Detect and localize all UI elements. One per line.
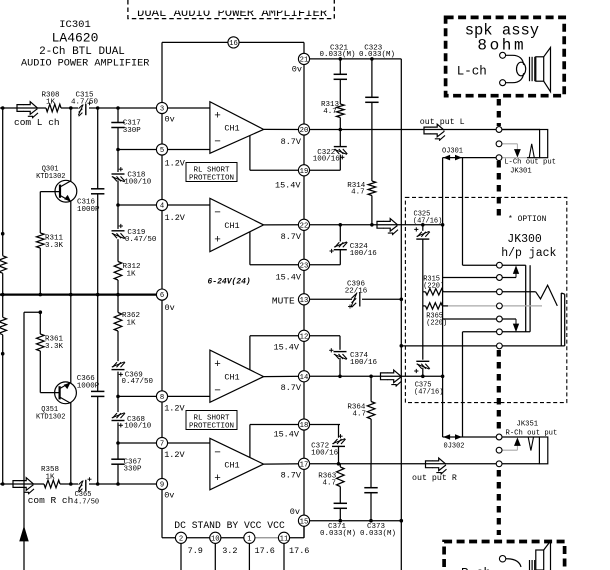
svg-text:1: 1 xyxy=(247,535,251,543)
svg-text:0.033(M): 0.033(M) xyxy=(320,530,356,538)
svg-text:KTD1302: KTD1302 xyxy=(36,414,65,422)
svg-text:h/p jack: h/p jack xyxy=(501,247,556,260)
svg-text:19: 19 xyxy=(300,168,309,176)
svg-text:JK301: JK301 xyxy=(510,168,532,176)
svg-text:RL SHORT: RL SHORT xyxy=(193,167,230,175)
svg-text:+: + xyxy=(214,359,221,371)
svg-text:2: 2 xyxy=(179,535,183,543)
svg-text:1.2V: 1.2V xyxy=(164,404,185,414)
svg-text:22/16: 22/16 xyxy=(345,288,368,296)
svg-text:8.7V: 8.7V xyxy=(281,232,302,242)
svg-text:JK351: JK351 xyxy=(517,420,539,428)
svg-text:12: 12 xyxy=(300,333,309,341)
svg-text:16: 16 xyxy=(229,40,238,48)
svg-text:com L ch: com L ch xyxy=(14,117,60,128)
svg-text:R-Ch out put: R-Ch out put xyxy=(506,429,558,437)
svg-text:1K: 1K xyxy=(45,474,55,482)
svg-text:14: 14 xyxy=(300,374,309,382)
svg-text:1.2V: 1.2V xyxy=(165,213,186,223)
svg-text:CH1: CH1 xyxy=(224,221,239,231)
svg-text:8.7V: 8.7V xyxy=(281,383,302,393)
svg-text:+: + xyxy=(214,473,221,485)
svg-text:10: 10 xyxy=(211,535,220,543)
svg-text:PROTECTION: PROTECTION xyxy=(189,175,234,183)
svg-text:1000P: 1000P xyxy=(77,383,100,391)
svg-text:0.033(M): 0.033(M) xyxy=(319,51,355,59)
svg-text:11: 11 xyxy=(280,535,289,543)
svg-text:17.6: 17.6 xyxy=(255,546,275,556)
svg-text:3: 3 xyxy=(160,106,164,114)
svg-text:100/16: 100/16 xyxy=(313,155,341,163)
svg-text:330P: 330P xyxy=(124,466,143,474)
svg-text:0v: 0v xyxy=(290,507,300,517)
svg-text:CH1: CH1 xyxy=(224,372,239,382)
svg-text:out put R: out put R xyxy=(412,474,457,483)
svg-text:com R ch: com R ch xyxy=(28,495,74,506)
svg-text:1.2V: 1.2V xyxy=(165,159,186,169)
svg-text:L-Ch out put: L-Ch out put xyxy=(504,159,556,167)
svg-text:+: + xyxy=(214,235,221,247)
svg-text:PROTECTION: PROTECTION xyxy=(189,423,234,431)
svg-text:L-ch: L-ch xyxy=(457,65,487,79)
svg-text:4.7: 4.7 xyxy=(351,188,365,196)
svg-text:JK300: JK300 xyxy=(507,233,542,246)
svg-text:21: 21 xyxy=(300,57,309,65)
svg-text:17: 17 xyxy=(300,461,309,469)
svg-text:−: − xyxy=(214,207,221,219)
svg-text:1K: 1K xyxy=(127,320,137,328)
svg-text:15.4V: 15.4V xyxy=(275,273,301,283)
svg-text:4.7/50: 4.7/50 xyxy=(71,98,99,106)
svg-text:−: − xyxy=(214,447,221,459)
svg-text:0.033(M): 0.033(M) xyxy=(360,530,396,538)
svg-text:DC STAND BY VCC VCC: DC STAND BY VCC VCC xyxy=(174,520,285,531)
svg-text:100/16: 100/16 xyxy=(350,250,378,258)
svg-text:AUDIO POWER AMPLIFIER: AUDIO POWER AMPLIFIER xyxy=(21,59,149,70)
svg-text:8.7V: 8.7V xyxy=(281,137,302,147)
svg-text:6-24V(24): 6-24V(24) xyxy=(208,278,251,287)
svg-text:15.4V: 15.4V xyxy=(273,430,299,440)
svg-text:17.6: 17.6 xyxy=(289,546,309,556)
svg-text:15.4V: 15.4V xyxy=(273,343,299,353)
svg-text:out put L: out put L xyxy=(420,118,465,127)
svg-text:MUTE: MUTE xyxy=(272,296,295,307)
svg-text:IC301: IC301 xyxy=(59,19,91,31)
svg-text:R-ch: R-ch xyxy=(461,567,491,570)
svg-text:3.3K: 3.3K xyxy=(45,343,64,351)
svg-text:0v: 0v xyxy=(165,115,175,125)
svg-text:(220): (220) xyxy=(423,283,444,291)
svg-text:3.2: 3.2 xyxy=(222,546,237,556)
svg-text:0.033(M): 0.033(M) xyxy=(359,51,395,59)
svg-text:15.4V: 15.4V xyxy=(275,181,301,191)
svg-text:1K: 1K xyxy=(46,98,56,106)
svg-text:3.3K: 3.3K xyxy=(45,242,64,250)
svg-text:330P: 330P xyxy=(123,127,142,135)
svg-text:15: 15 xyxy=(300,518,309,526)
svg-text:9: 9 xyxy=(160,482,164,490)
svg-text:0J302: 0J302 xyxy=(444,443,465,451)
svg-text:0v: 0v xyxy=(165,303,175,313)
svg-text:RL SHORT: RL SHORT xyxy=(193,415,230,423)
svg-text:0v: 0v xyxy=(292,65,302,75)
svg-text:20: 20 xyxy=(300,127,309,135)
svg-text:CH1: CH1 xyxy=(224,124,239,134)
svg-text:LA4620: LA4620 xyxy=(52,31,99,46)
svg-text:8ohm: 8ohm xyxy=(477,37,526,55)
svg-text:13: 13 xyxy=(300,297,309,305)
svg-text:1K: 1K xyxy=(127,271,137,279)
svg-text:+: + xyxy=(214,111,221,123)
svg-text:(220): (220) xyxy=(426,320,447,328)
svg-text:−: − xyxy=(214,136,221,148)
svg-text:7.9: 7.9 xyxy=(188,546,203,556)
svg-text:4: 4 xyxy=(160,203,164,211)
svg-text:1.2V: 1.2V xyxy=(164,450,185,460)
svg-text:0.47/50: 0.47/50 xyxy=(122,378,154,386)
svg-text:−: − xyxy=(214,385,221,397)
svg-text:100/10: 100/10 xyxy=(124,178,152,186)
svg-text:2-Ch BTL DUAL: 2-Ch BTL DUAL xyxy=(39,46,125,58)
svg-text:4.7: 4.7 xyxy=(353,411,367,419)
svg-text:8: 8 xyxy=(160,394,164,402)
svg-text:* OPTION: * OPTION xyxy=(508,215,547,224)
svg-text:0.47/50: 0.47/50 xyxy=(125,236,157,244)
svg-text:4.7/50: 4.7/50 xyxy=(74,499,99,507)
svg-text:100/10: 100/10 xyxy=(124,422,152,430)
svg-text:(47/16): (47/16) xyxy=(413,218,442,226)
svg-text:18: 18 xyxy=(300,422,309,430)
svg-text:23: 23 xyxy=(300,262,309,270)
svg-text:4.7: 4.7 xyxy=(323,108,337,116)
svg-text:4.7: 4.7 xyxy=(323,480,337,488)
svg-text:(47/16): (47/16) xyxy=(414,389,443,397)
svg-text:KTD1302: KTD1302 xyxy=(36,173,65,181)
svg-text:22: 22 xyxy=(300,222,309,230)
svg-text:1000P: 1000P xyxy=(77,206,100,214)
svg-text:OJ301: OJ301 xyxy=(442,148,463,156)
svg-text:100/16: 100/16 xyxy=(350,359,378,367)
svg-text:6: 6 xyxy=(160,292,164,300)
svg-text:CH1: CH1 xyxy=(224,460,239,470)
svg-text:100/16: 100/16 xyxy=(311,450,339,458)
svg-text:7: 7 xyxy=(160,441,164,449)
svg-text:8.7V: 8.7V xyxy=(281,471,302,481)
svg-text:5: 5 xyxy=(160,147,164,155)
svg-text:0v: 0v xyxy=(164,491,174,501)
